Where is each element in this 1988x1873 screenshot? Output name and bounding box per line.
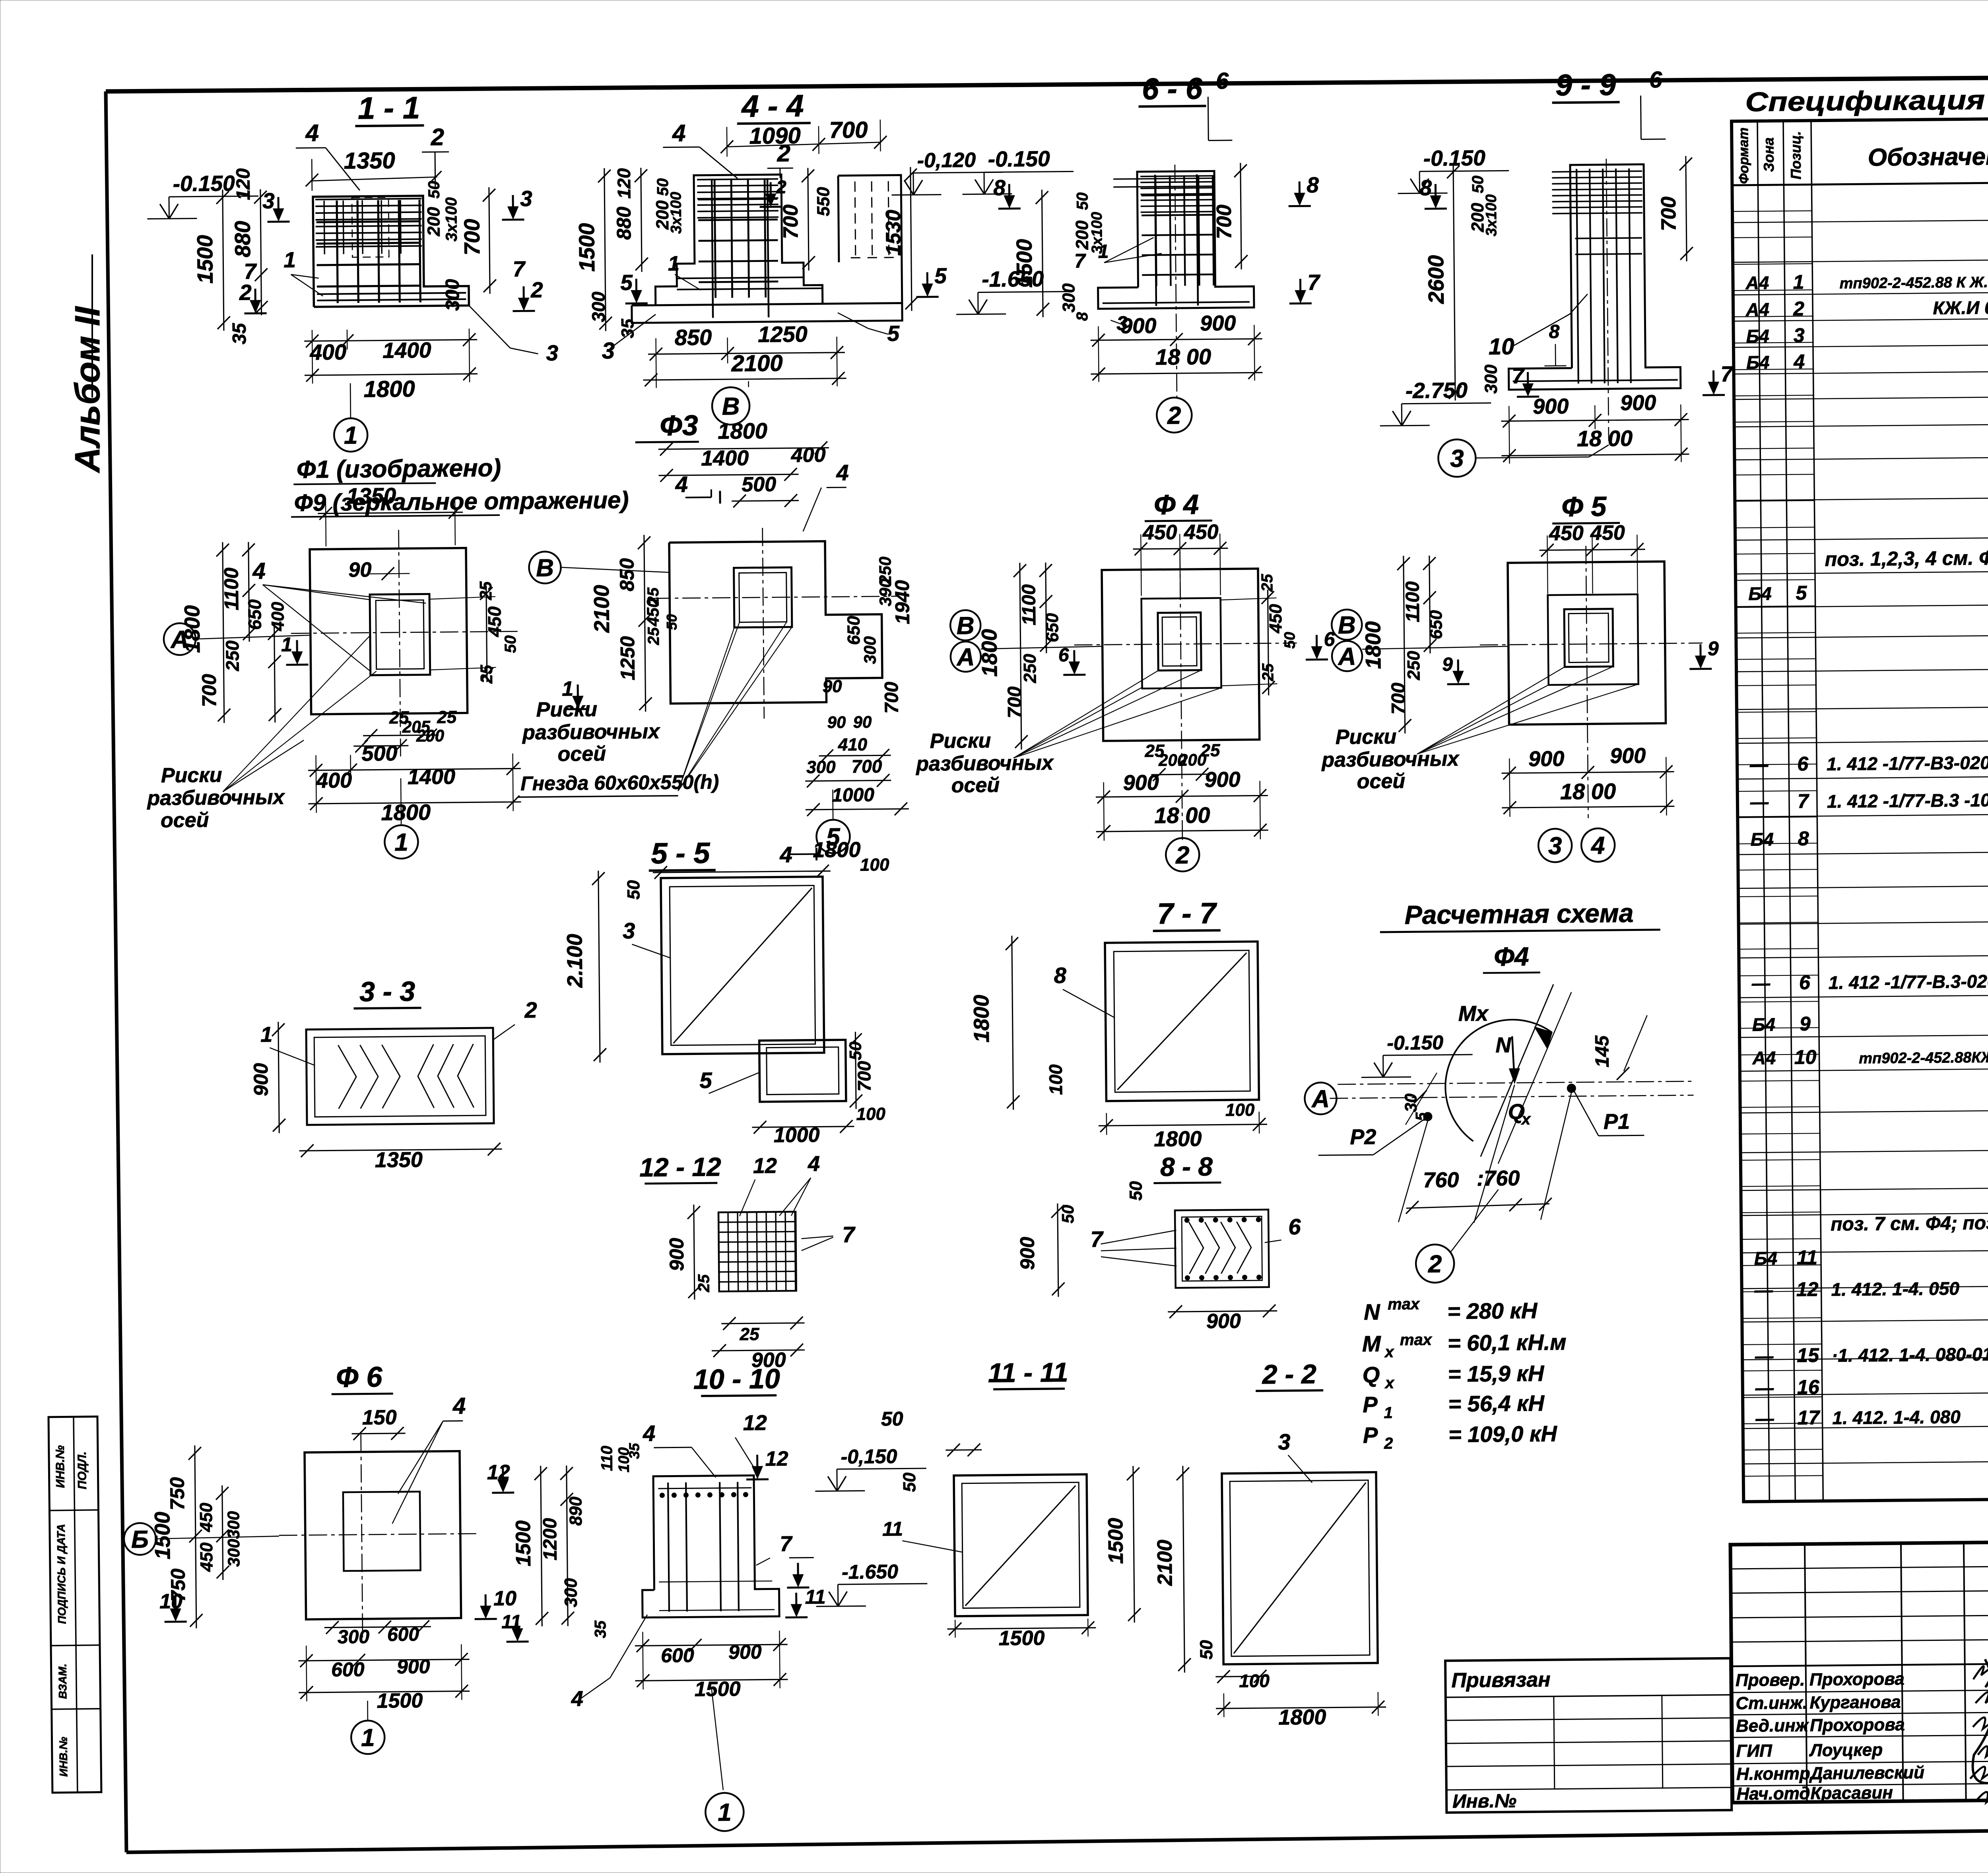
svg-text:90: 90	[348, 558, 371, 582]
svg-text:Р1: Р1	[1604, 1110, 1630, 1134]
section 5-5 formwork plan	[562, 835, 892, 1149]
svg-text:6: 6	[1649, 67, 1663, 93]
svg-text:1800: 1800	[718, 418, 767, 444]
svg-text:4: 4	[643, 1421, 656, 1446]
svg-text:8: 8	[1054, 963, 1067, 988]
section 1-1 foundation Ф1	[146, 88, 629, 518]
left margin stamp boxes	[49, 1417, 101, 1793]
svg-text:9: 9	[1442, 654, 1453, 675]
svg-text:5: 5	[887, 321, 900, 345]
svg-text:1800: 1800	[180, 605, 204, 653]
svg-text:6: 6	[1797, 752, 1809, 775]
svg-text:50: 50	[1074, 192, 1091, 210]
svg-text:6: 6	[1288, 1214, 1301, 1239]
svg-text:1: 1	[260, 1023, 273, 1047]
svg-text:1: 1	[562, 677, 573, 700]
svg-text:3: 3	[1548, 832, 1562, 860]
svg-text:—: —	[1755, 1408, 1774, 1429]
section 8-8 rebar cage	[1015, 1151, 1302, 1334]
svg-text:8: 8	[1074, 312, 1091, 321]
svg-text:7: 7	[513, 256, 526, 281]
svg-text:max: max	[1400, 1331, 1433, 1349]
svg-text:А: А	[1337, 643, 1356, 670]
svg-text:900: 900	[1120, 314, 1157, 338]
svg-text:2: 2	[239, 280, 252, 304]
svg-text:—: —	[1751, 973, 1771, 993]
svg-text:1800: 1800	[977, 629, 1002, 677]
svg-text:—: —	[1755, 1377, 1774, 1398]
svg-text:Б4: Б4	[1752, 1014, 1776, 1035]
svg-text:300: 300	[224, 1511, 243, 1539]
svg-text:450: 450	[196, 1503, 216, 1532]
svg-text:550: 550	[813, 187, 833, 216]
svg-text:—: —	[1749, 754, 1769, 775]
svg-text:700: 700	[1657, 196, 1681, 231]
svg-text:Лоуцкер: Лоуцкер	[1809, 1740, 1883, 1761]
svg-text:3: 3	[1794, 324, 1805, 346]
svg-text:1: 1	[283, 247, 296, 272]
svg-text:ИНВ.№: ИНВ.№	[57, 1737, 70, 1777]
svg-text:Прохорова: Прохорова	[1809, 1669, 1905, 1689]
svg-text:1350: 1350	[344, 147, 395, 174]
svg-text:6: 6	[1058, 645, 1069, 666]
svg-text:7 - 7: 7 - 7	[1157, 897, 1218, 930]
svg-text:3: 3	[623, 918, 635, 943]
Привязан box	[1445, 1658, 1732, 1813]
svg-text:110: 110	[598, 1446, 616, 1471]
svg-text:В: В	[957, 612, 975, 640]
section 9-9 foundation Ф5	[1377, 66, 1735, 477]
svg-text:2: 2	[777, 140, 790, 167]
svg-text:35: 35	[626, 1443, 642, 1459]
svg-text:6: 6	[1799, 971, 1811, 993]
svg-text:А: А	[1311, 1085, 1330, 1113]
svg-text:400: 400	[316, 768, 352, 793]
svg-text:Б4: Б4	[1748, 583, 1772, 604]
svg-text:250: 250	[1020, 653, 1040, 683]
svg-text:Риски: Риски	[930, 729, 991, 752]
svg-text:90: 90	[822, 677, 842, 696]
svg-text:50: 50	[502, 635, 519, 653]
svg-text:3: 3	[1450, 445, 1464, 472]
svg-text:450: 450	[643, 598, 662, 626]
svg-text:Данилевский: Данилевский	[1809, 1763, 1925, 1784]
svg-text:ГИП: ГИП	[1736, 1741, 1773, 1761]
svg-text:4: 4	[571, 1687, 584, 1711]
svg-text:1800: 1800	[1154, 1127, 1202, 1151]
svg-text:50: 50	[664, 614, 680, 630]
svg-text:1: 1	[361, 1724, 375, 1751]
svg-text:= 56,4 кН: = 56,4 кН	[1448, 1390, 1545, 1416]
svg-text:Б4: Б4	[1746, 326, 1769, 347]
svg-text:= 280 кН: = 280 кН	[1447, 1298, 1538, 1324]
svg-text:2 - 2: 2 - 2	[1261, 1359, 1316, 1390]
svg-text:3: 3	[1278, 1429, 1291, 1454]
svg-text:-1.650: -1.650	[842, 1561, 898, 1583]
svg-text:2: 2	[430, 124, 444, 150]
svg-text:Мх: Мх	[1458, 1002, 1489, 1026]
svg-text:11: 11	[1797, 1246, 1817, 1268]
svg-text:1400: 1400	[382, 337, 431, 363]
svg-text:2: 2	[1167, 402, 1181, 429]
svg-text:6: 6	[1216, 68, 1229, 94]
svg-text:1500: 1500	[512, 1520, 535, 1567]
svg-text:2.100: 2.100	[563, 934, 587, 988]
svg-text:600: 600	[331, 1658, 365, 1681]
loads text block N,Mx,Qx,P1,P2	[1362, 1294, 1567, 1452]
svg-text:250: 250	[222, 640, 243, 672]
svg-text:10 - 10: 10 - 10	[693, 1363, 780, 1395]
svg-text:650: 650	[1426, 610, 1446, 639]
svg-text:410: 410	[838, 735, 868, 755]
svg-text:ПОДЛ.: ПОДЛ.	[76, 1451, 89, 1489]
svg-text:1000: 1000	[832, 785, 875, 806]
svg-text:120: 120	[233, 168, 254, 200]
svg-text:35: 35	[229, 322, 250, 344]
svg-text:400: 400	[309, 339, 347, 365]
svg-text:100: 100	[1225, 1100, 1255, 1120]
svg-text:6 - 6: 6 - 6	[1142, 72, 1203, 106]
svg-text:Ф 6: Ф 6	[336, 1361, 383, 1393]
svg-text:400: 400	[790, 444, 825, 467]
svg-text:12: 12	[1796, 1278, 1819, 1300]
plan Ф6	[122, 1360, 518, 1756]
svg-text:900: 900	[1533, 394, 1569, 419]
svg-text:тп902-2-452.88 К Ж.И 00.02.04.: тп902-2-452.88 К Ж.И 00.02.04.00	[1839, 273, 1988, 292]
svg-text:1350: 1350	[346, 483, 396, 508]
svg-text:Вед.инж: Вед.инж	[1736, 1716, 1809, 1736]
svg-text:1: 1	[668, 252, 679, 275]
svg-text:700: 700	[829, 117, 868, 143]
svg-text:100: 100	[860, 855, 889, 875]
svg-text:600: 600	[661, 1644, 694, 1667]
svg-text:300: 300	[588, 291, 609, 322]
svg-text:450: 450	[1142, 521, 1177, 544]
svg-text:Прохорова: Прохорова	[1810, 1715, 1905, 1735]
svg-text:А: А	[956, 644, 975, 671]
svg-text:700: 700	[1004, 686, 1026, 718]
svg-text:300: 300	[442, 279, 464, 311]
svg-text:5 - 5: 5 - 5	[651, 836, 711, 870]
svg-text:1940: 1940	[891, 580, 914, 624]
svg-text:1: 1	[344, 422, 358, 449]
svg-text:4: 4	[836, 460, 849, 485]
svg-text:-2.750: -2.750	[1406, 378, 1468, 403]
svg-text:1400: 1400	[701, 446, 749, 470]
svg-text:тп902-2-452.88КЖ.И00.00.05.00: тп902-2-452.88КЖ.И00.00.05.00	[1859, 1048, 1988, 1067]
svg-text:760: 760	[1423, 1168, 1459, 1192]
svg-text:1800: 1800	[381, 799, 431, 825]
svg-text:осей: осей	[557, 742, 606, 766]
svg-text:2: 2	[1384, 1435, 1393, 1452]
section 11-11 formwork plan	[881, 1357, 1141, 1651]
svg-text:11 - 11: 11 - 11	[988, 1357, 1068, 1388]
svg-text:= 15,9 кН: = 15,9 кН	[1448, 1361, 1545, 1386]
svg-text:1500: 1500	[150, 1512, 175, 1560]
svg-text:50: 50	[425, 181, 443, 199]
section 12-12 rebar mesh	[639, 1151, 857, 1373]
section 2-2 formwork plan	[1152, 1358, 1386, 1730]
svg-text:4: 4	[675, 472, 688, 497]
svg-text:3 - 3: 3 - 3	[359, 976, 415, 1007]
svg-text:50: 50	[1281, 632, 1298, 649]
svg-text:8: 8	[1549, 321, 1559, 342]
svg-text:N: N	[1364, 1299, 1381, 1324]
svg-text:700: 700	[1388, 683, 1409, 715]
svg-text:9: 9	[1800, 1012, 1811, 1035]
svg-text:400: 400	[268, 601, 288, 631]
svg-text:4 - 4: 4 - 4	[741, 88, 804, 124]
svg-text:700: 700	[851, 756, 882, 777]
plan Ф1	[144, 482, 522, 861]
svg-text:900: 900	[666, 1238, 688, 1271]
svg-text:750: 750	[166, 1477, 189, 1510]
svg-text:300: 300	[338, 1627, 370, 1648]
svg-text:1530: 1530	[882, 209, 905, 256]
svg-text:100: 100	[1239, 1670, 1270, 1691]
svg-text:Б4: Б4	[1746, 352, 1770, 373]
design scheme (Расчетная схема) Ф4	[1303, 898, 1695, 1284]
svg-text:Позиц.: Позиц.	[1787, 131, 1804, 180]
svg-text:25: 25	[645, 627, 662, 646]
svg-text:Ф3: Ф3	[660, 409, 698, 442]
svg-text:300: 300	[224, 1539, 243, 1567]
svg-text:7: 7	[1307, 270, 1321, 295]
svg-text:2100: 2100	[731, 350, 783, 376]
svg-text:1500: 1500	[998, 1627, 1044, 1650]
svg-text:1: 1	[718, 1799, 732, 1826]
svg-text:3х100: 3х100	[443, 197, 460, 242]
svg-text:2: 2	[524, 997, 537, 1022]
svg-text:10: 10	[1489, 333, 1514, 360]
svg-text:450: 450	[1549, 522, 1584, 545]
svg-text:Риски: Риски	[1336, 725, 1397, 748]
svg-text:-0.150: -0.150	[1387, 1032, 1443, 1054]
svg-text:Ст.инж.: Ст.инж.	[1736, 1693, 1807, 1713]
svg-text:12: 12	[753, 1154, 777, 1178]
svg-text:18 00: 18 00	[1560, 779, 1616, 804]
svg-text:450: 450	[197, 1542, 217, 1572]
svg-text:900: 900	[1200, 311, 1236, 335]
svg-text:18 00: 18 00	[1155, 344, 1211, 369]
svg-text:4: 4	[1793, 350, 1805, 372]
svg-text:15: 15	[1797, 1344, 1819, 1366]
svg-text:Б4: Б4	[1754, 1248, 1778, 1269]
svg-text:300: 300	[561, 1578, 581, 1607]
svg-text:-0.150: -0.150	[173, 171, 235, 196]
svg-text:поз. 7 см. Ф4; поз. 4см: поз. 7 см. Ф4; поз. 4см	[1831, 1212, 1988, 1235]
svg-text:Нач.отд: Нач.отд	[1736, 1784, 1810, 1804]
svg-text:25: 25	[1258, 574, 1276, 592]
svg-text:-0,150: -0,150	[841, 1445, 897, 1468]
svg-text:9: 9	[1708, 637, 1719, 659]
svg-text:50: 50	[1469, 176, 1487, 194]
svg-text:850: 850	[615, 558, 638, 591]
svg-text:25: 25	[739, 1324, 759, 1344]
svg-text:2: 2	[1175, 841, 1190, 869]
svg-text:25: 25	[695, 1274, 712, 1293]
svg-text:1. 412 -1/77-В.3-020: 1. 412 -1/77-В.3-020	[1829, 971, 1988, 993]
svg-text:1: 1	[1384, 1404, 1393, 1421]
svg-text:650: 650	[244, 599, 265, 630]
svg-text:2: 2	[1428, 1251, 1442, 1278]
plan Ф5	[1318, 490, 1720, 864]
svg-text:ПОДПИСЬ И ДАТА: ПОДПИСЬ И ДАТА	[55, 1524, 68, 1624]
svg-text:1: 1	[281, 633, 292, 655]
svg-text:Инв.№: Инв.№	[1452, 1790, 1516, 1812]
svg-text:500: 500	[361, 741, 398, 766]
svg-text:1250: 1250	[616, 636, 639, 681]
svg-text:3х100: 3х100	[668, 192, 685, 234]
svg-text:900: 900	[1620, 391, 1656, 415]
svg-text:Ф 4: Ф 4	[1154, 489, 1199, 520]
svg-text:1200: 1200	[540, 1518, 561, 1561]
plan Ф4	[913, 488, 1337, 874]
svg-text:Риски: Риски	[161, 764, 222, 787]
svg-text:Р2: Р2	[1350, 1125, 1376, 1149]
svg-text:В: В	[1338, 611, 1356, 639]
specification table	[1731, 80, 1988, 1502]
svg-text:1800: 1800	[813, 838, 861, 862]
svg-text:А4: А4	[1745, 272, 1769, 293]
svg-text:5: 5	[1796, 582, 1807, 604]
svg-text:150: 150	[362, 1406, 397, 1429]
svg-text:700: 700	[198, 674, 221, 707]
svg-text:50: 50	[1126, 1181, 1145, 1201]
svg-text:18 00: 18 00	[1154, 803, 1210, 828]
section 7-7 formwork plan	[969, 896, 1268, 1152]
svg-text:= 109,0 кН: = 109,0 кН	[1448, 1421, 1558, 1447]
svg-text:А4: А4	[1752, 1047, 1776, 1068]
svg-text:700: 700	[881, 682, 903, 714]
svg-text:35: 35	[592, 1620, 609, 1638]
svg-text:900: 900	[397, 1655, 430, 1678]
svg-text:10: 10	[493, 1587, 516, 1610]
svg-text:Альбом II: Альбом II	[68, 306, 107, 473]
svg-text:max: max	[1388, 1295, 1420, 1313]
svg-text:Формат: Формат	[1736, 128, 1751, 184]
svg-text:8: 8	[993, 175, 1006, 200]
svg-text:8 - 8: 8 - 8	[1160, 1152, 1213, 1181]
svg-text:8: 8	[1798, 827, 1809, 849]
svg-text:450: 450	[1590, 521, 1625, 545]
svg-text:100: 100	[1045, 1064, 1066, 1095]
svg-text:200: 200	[424, 207, 444, 237]
svg-text:1350: 1350	[375, 1148, 423, 1172]
svg-text:1100: 1100	[220, 568, 243, 611]
section 10-10 foundation Ф6	[486, 1362, 930, 1833]
svg-text:1 - 1: 1 - 1	[358, 90, 420, 126]
svg-text:2: 2	[530, 277, 544, 302]
svg-text:50: 50	[881, 1408, 903, 1430]
svg-text:4: 4	[1590, 832, 1605, 859]
svg-text:90: 90	[827, 713, 846, 731]
svg-text::760: :760	[1477, 1166, 1520, 1190]
svg-text:2600: 2600	[1423, 255, 1448, 304]
svg-text:N: N	[1495, 1033, 1512, 1057]
svg-text:1: 1	[1098, 241, 1109, 262]
svg-text:Q: Q	[1362, 1362, 1380, 1387]
svg-text:1. 412 -1/77-В.3 -100: 1. 412 -1/77-В.3 -100	[1827, 789, 1988, 812]
svg-text:осей: осей	[161, 809, 209, 832]
svg-text:600: 600	[387, 1624, 419, 1646]
svg-text:3х100: 3х100	[1483, 194, 1500, 237]
svg-text:осей: осей	[951, 774, 1000, 797]
svg-text:7: 7	[1720, 361, 1734, 386]
svg-text:М: М	[1362, 1331, 1382, 1356]
svg-text:разбивочных: разбивочных	[146, 786, 285, 810]
svg-text:Р: Р	[1363, 1392, 1378, 1417]
svg-text:-0.150: -0.150	[1423, 145, 1486, 171]
svg-text:8: 8	[1307, 173, 1319, 197]
svg-text:700: 700	[779, 204, 803, 239]
section 4-4 foundation Ф3	[573, 86, 1005, 426]
svg-text:Ф4: Ф4	[1494, 942, 1529, 971]
svg-text:900: 900	[1123, 771, 1159, 795]
svg-text:1500: 1500	[377, 1689, 423, 1712]
svg-text:Ф 5: Ф 5	[1561, 491, 1607, 522]
svg-text:1250: 1250	[758, 322, 808, 347]
svg-text:1100: 1100	[1018, 584, 1040, 625]
svg-text:3: 3	[602, 338, 615, 364]
svg-text:-0,120: -0,120	[917, 149, 976, 172]
svg-text:50: 50	[1197, 1640, 1216, 1660]
svg-text:1500: 1500	[192, 235, 217, 284]
section 3-3 rebar cage	[249, 975, 538, 1173]
svg-text:25: 25	[1200, 741, 1220, 760]
svg-text:2: 2	[1793, 297, 1804, 320]
svg-text:850: 850	[675, 325, 712, 350]
svg-text:2100: 2100	[590, 585, 614, 633]
svg-text:17: 17	[1797, 1406, 1820, 1429]
svg-text:Н.контр.: Н.контр.	[1736, 1764, 1815, 1784]
svg-text:250: 250	[1404, 651, 1424, 681]
svg-text:х: х	[1521, 1111, 1531, 1128]
svg-text:120: 120	[613, 168, 635, 199]
svg-text:1100: 1100	[1402, 581, 1423, 622]
svg-text:12: 12	[743, 1411, 767, 1435]
svg-text:700: 700	[459, 219, 484, 256]
svg-text:·1. 412. 1-4. 080-01: ·1. 412. 1-4. 080-01	[1832, 1344, 1988, 1366]
svg-text:25: 25	[437, 708, 457, 727]
svg-text:50: 50	[1058, 1205, 1077, 1223]
svg-text:—: —	[1754, 1280, 1773, 1300]
plan Ф3	[514, 408, 916, 856]
svg-text:1800: 1800	[363, 376, 415, 402]
svg-text:900: 900	[1016, 1237, 1039, 1270]
svg-text:50: 50	[624, 880, 643, 900]
svg-text:Обозначение: Обозначение	[1868, 142, 1988, 171]
svg-text:Привязан: Привязан	[1451, 1668, 1551, 1692]
svg-text:2: 2	[776, 176, 786, 197]
svg-text:КЖ.И 00.00.03.00: КЖ.И 00.00.03.00	[1933, 296, 1988, 318]
svg-text:900: 900	[1528, 747, 1565, 771]
svg-text:= 60,1 кН.м: = 60,1 кН.м	[1448, 1330, 1567, 1356]
svg-text:ВЗАМ.: ВЗАМ.	[56, 1664, 69, 1699]
svg-text:х: х	[1384, 1343, 1394, 1361]
svg-text:Зона: Зона	[1760, 138, 1777, 172]
svg-text:1800: 1800	[969, 995, 994, 1043]
svg-text:Курганова: Курганова	[1809, 1692, 1901, 1712]
svg-text:300: 300	[860, 636, 879, 664]
svg-text:300: 300	[806, 757, 836, 777]
svg-text:Риски: Риски	[536, 698, 597, 721]
svg-text:700: 700	[1213, 204, 1236, 239]
svg-text:145: 145	[1592, 1035, 1613, 1068]
svg-text:700: 700	[854, 1061, 875, 1092]
svg-text:7: 7	[1798, 790, 1809, 812]
svg-text:880: 880	[230, 221, 255, 258]
